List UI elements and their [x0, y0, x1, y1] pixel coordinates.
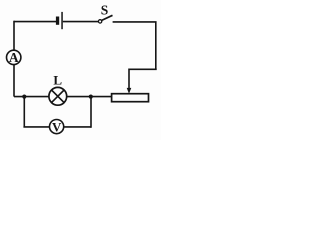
- wire left vertical corner down to ammeter: [13, 21, 15, 51]
- wire voltmeter right rise: [90, 97, 92, 128]
- node junction left (voltmeter tap): [22, 95, 26, 99]
- svg-text:V: V: [52, 119, 62, 134]
- lamp L: [49, 87, 67, 105]
- wire right horizontal to wiper drop: [129, 69, 157, 89]
- wire top-left from battery to corner: [14, 21, 56, 23]
- wire ammeter bottom to lamp branch corner: [13, 65, 15, 97]
- wire voltmeter bottom right: [64, 126, 91, 128]
- switch S blade: [102, 15, 113, 20]
- svg-text:L: L: [53, 72, 62, 87]
- wiper arrowhead: [127, 88, 132, 94]
- svg-text:S: S: [101, 2, 109, 17]
- ammeter A: [7, 50, 21, 65]
- switch S contact circle: [98, 20, 101, 23]
- node junction right (voltmeter tap): [89, 95, 93, 99]
- wire voltmeter left drop: [23, 97, 25, 127]
- voltmeter V: [50, 119, 64, 134]
- svg-text:A: A: [9, 50, 19, 65]
- rheostat: [112, 94, 149, 102]
- wire switch to top-right corner and down: [113, 22, 156, 69]
- wire voltmeter bottom left: [23, 126, 49, 128]
- wire battery to switch: [63, 21, 99, 23]
- wire lamp branch horizontal: [14, 96, 112, 98]
- battery: [56, 12, 63, 29]
